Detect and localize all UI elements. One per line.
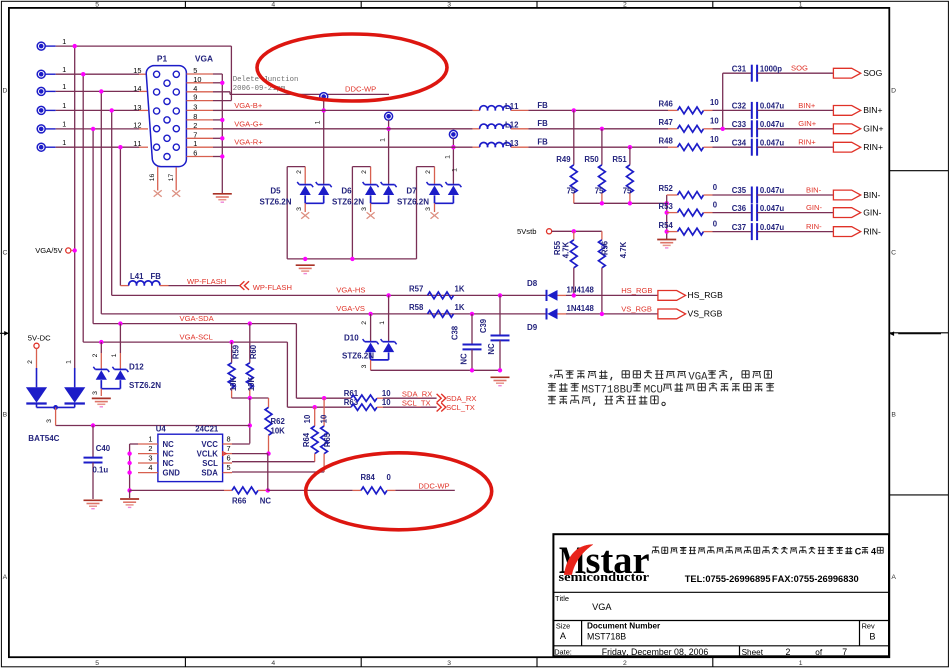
svg-text:R65: R65	[323, 432, 332, 447]
svg-text:D10: D10	[344, 333, 359, 342]
svg-text:SCL: SCL	[202, 459, 218, 468]
svg-text:0.047u: 0.047u	[760, 138, 785, 147]
svg-text:A: A	[560, 631, 567, 641]
svg-text:VGA: VGA	[195, 54, 213, 64]
svg-text:RIN+: RIN+	[863, 142, 883, 152]
svg-text:5V-DC: 5V-DC	[28, 334, 51, 343]
svg-text:3: 3	[425, 207, 432, 211]
svg-text:STZ6.2N: STZ6.2N	[342, 352, 374, 361]
svg-text:RIN+: RIN+	[798, 138, 816, 147]
svg-text:WP-FLASH: WP-FLASH	[187, 277, 226, 286]
svg-text:R64: R64	[302, 432, 311, 447]
svg-text:MST718BU: MST718BU	[582, 384, 633, 396]
svg-text:D6: D6	[341, 187, 352, 196]
svg-text:0.047u: 0.047u	[760, 223, 785, 232]
svg-text:BAT54C: BAT54C	[28, 434, 59, 443]
svg-text:0: 0	[713, 219, 718, 228]
svg-text:75: 75	[595, 187, 604, 196]
svg-text:D8: D8	[527, 279, 538, 288]
svg-text:1: 1	[799, 660, 803, 667]
svg-text:75: 75	[623, 187, 632, 196]
svg-text:Friday, December 08, 2006: Friday, December 08, 2006	[602, 647, 709, 657]
svg-text:C36: C36	[732, 204, 747, 213]
svg-text:2: 2	[623, 660, 627, 667]
svg-text:A: A	[891, 574, 896, 581]
svg-text:1N4148: 1N4148	[567, 285, 595, 294]
svg-text:1N4148: 1N4148	[567, 304, 595, 313]
svg-text:of: of	[815, 648, 823, 657]
svg-text:C: C	[855, 547, 862, 557]
svg-text:C32: C32	[732, 102, 747, 111]
svg-text:2: 2	[425, 170, 432, 174]
svg-text:7: 7	[842, 647, 847, 657]
svg-text:11: 11	[133, 139, 141, 148]
svg-text:D7: D7	[406, 187, 417, 196]
svg-text:R48: R48	[659, 136, 674, 145]
svg-text:B: B	[869, 631, 875, 641]
svg-text:GIN+: GIN+	[863, 124, 883, 134]
svg-text:STZ6.2N: STZ6.2N	[332, 197, 364, 206]
svg-text:B: B	[891, 412, 896, 419]
svg-text:75: 75	[567, 187, 576, 196]
svg-text:Date:: Date:	[554, 647, 572, 656]
svg-text:R54: R54	[659, 221, 674, 230]
svg-text:NC: NC	[260, 496, 272, 505]
svg-text:Size: Size	[556, 622, 570, 631]
svg-text:VS_RGB: VS_RGB	[688, 309, 723, 319]
svg-text:R47: R47	[659, 118, 673, 127]
svg-text:1: 1	[62, 138, 66, 147]
svg-text:SCL_TX: SCL_TX	[446, 403, 475, 412]
svg-text:24C21: 24C21	[195, 425, 219, 434]
svg-text:R46: R46	[659, 100, 674, 109]
svg-text:1: 1	[65, 360, 72, 364]
svg-text:5: 5	[227, 463, 231, 472]
svg-text:FB: FB	[537, 119, 548, 128]
svg-text:3: 3	[92, 391, 99, 395]
svg-text:R57: R57	[409, 285, 423, 294]
svg-text:5: 5	[95, 2, 99, 9]
svg-text:1: 1	[315, 120, 322, 124]
svg-text:3: 3	[46, 419, 53, 423]
svg-text:DDC-WP: DDC-WP	[345, 85, 376, 94]
svg-text:10: 10	[382, 398, 391, 407]
svg-text:L13: L13	[505, 139, 519, 148]
svg-text:1: 1	[111, 353, 118, 357]
svg-text:1: 1	[444, 155, 451, 159]
svg-text:4: 4	[871, 547, 876, 557]
svg-text:R50: R50	[584, 155, 599, 164]
svg-text:1K: 1K	[455, 303, 465, 312]
svg-text:R66: R66	[232, 496, 247, 505]
svg-text:D: D	[2, 88, 7, 95]
svg-text:1: 1	[380, 138, 387, 142]
svg-text:U4: U4	[156, 425, 167, 434]
svg-text:B: B	[3, 412, 8, 419]
svg-text:Document Number: Document Number	[587, 622, 661, 631]
svg-text:R52: R52	[659, 184, 674, 193]
svg-text:2: 2	[27, 360, 34, 364]
svg-text:NC: NC	[163, 450, 175, 459]
svg-text:C34: C34	[732, 138, 747, 147]
svg-text:4.7K: 4.7K	[562, 241, 571, 258]
svg-text:Sheet: Sheet	[742, 648, 764, 657]
svg-text:R59: R59	[232, 344, 241, 359]
svg-text:10K: 10K	[271, 427, 286, 436]
svg-text:STZ6.2N: STZ6.2N	[397, 197, 429, 206]
svg-text:1: 1	[799, 2, 803, 9]
svg-text:D: D	[891, 88, 896, 95]
svg-text:C: C	[891, 250, 896, 257]
svg-text:HS_RGB: HS_RGB	[621, 286, 652, 295]
svg-text:C33: C33	[732, 120, 747, 129]
svg-text:BIN-: BIN-	[806, 185, 822, 194]
svg-text:GIN-: GIN-	[863, 207, 881, 217]
svg-text:0: 0	[713, 200, 718, 209]
svg-text:7: 7	[227, 444, 231, 453]
svg-text:R84: R84	[361, 473, 376, 482]
svg-text:1: 1	[62, 37, 66, 46]
svg-text:10: 10	[303, 414, 312, 423]
svg-text:R49: R49	[556, 155, 571, 164]
svg-text:1K: 1K	[455, 285, 465, 294]
svg-text:BIN-: BIN-	[863, 190, 880, 200]
svg-text:10: 10	[710, 135, 719, 144]
svg-text:FB: FB	[151, 272, 162, 281]
svg-text:R58: R58	[409, 303, 424, 312]
svg-text:SOG: SOG	[863, 68, 882, 78]
svg-text:2: 2	[361, 170, 368, 174]
svg-text:1: 1	[148, 435, 152, 444]
svg-text:MST718B: MST718B	[587, 631, 626, 641]
svg-text:1: 1	[62, 101, 66, 110]
svg-text:0.047u: 0.047u	[760, 186, 785, 195]
svg-text:STZ6.2N: STZ6.2N	[259, 197, 291, 206]
svg-text:MCU: MCU	[644, 384, 663, 396]
svg-text:17: 17	[168, 174, 175, 182]
svg-text:1: 1	[62, 65, 66, 74]
svg-text:VGA-G+: VGA-G+	[234, 119, 263, 128]
svg-text:SDA: SDA	[201, 469, 218, 478]
svg-text:10: 10	[710, 117, 719, 126]
svg-text:10: 10	[710, 98, 719, 107]
svg-text:3: 3	[361, 364, 368, 368]
svg-text:TEL:0755-26996895: TEL:0755-26996895	[685, 574, 771, 584]
svg-text:0: 0	[387, 473, 392, 482]
svg-text:0.1u: 0.1u	[93, 466, 109, 475]
svg-text:4.7K: 4.7K	[619, 241, 628, 258]
svg-text:VGA-B+: VGA-B+	[234, 101, 263, 110]
svg-text:VGA-SDA: VGA-SDA	[180, 314, 215, 323]
svg-text:VGA-SCL: VGA-SCL	[180, 333, 213, 342]
svg-text:1000p: 1000p	[760, 64, 782, 73]
svg-text:SOG: SOG	[791, 64, 808, 73]
svg-text:VCC: VCC	[201, 440, 218, 449]
svg-text:2: 2	[361, 321, 368, 325]
svg-text:3: 3	[447, 660, 451, 667]
svg-text:VGA: VGA	[592, 602, 612, 612]
svg-text:NC: NC	[459, 353, 468, 365]
svg-text:VGA-VS: VGA-VS	[336, 304, 365, 313]
svg-text:3: 3	[361, 207, 368, 211]
svg-text:0: 0	[713, 183, 718, 192]
svg-text:1: 1	[452, 168, 459, 172]
svg-text:RIN-: RIN-	[806, 222, 822, 231]
svg-text:0.047u: 0.047u	[760, 102, 785, 111]
svg-text:SCL_TX: SCL_TX	[402, 398, 431, 407]
svg-text:12: 12	[133, 121, 141, 130]
svg-text:GIN-: GIN-	[806, 203, 823, 212]
svg-text:14: 14	[133, 84, 141, 93]
svg-text:0.047u: 0.047u	[760, 204, 785, 213]
svg-text:FB: FB	[537, 138, 548, 147]
svg-text:3: 3	[296, 207, 303, 211]
svg-text:RIN-: RIN-	[863, 226, 881, 236]
svg-text:GND: GND	[163, 469, 181, 478]
svg-text:Title: Title	[555, 594, 569, 603]
svg-text:15: 15	[133, 66, 141, 75]
svg-text:R62: R62	[271, 417, 286, 426]
svg-text:2: 2	[785, 647, 790, 657]
svg-text:D5: D5	[270, 187, 281, 196]
svg-text:13: 13	[133, 103, 141, 112]
svg-text:HS_RGB: HS_RGB	[688, 290, 724, 300]
svg-text:C: C	[2, 250, 7, 257]
svg-text:STZ6.2N: STZ6.2N	[129, 381, 161, 390]
svg-text:NC: NC	[163, 459, 175, 468]
svg-text:4: 4	[271, 660, 275, 667]
svg-text:BIN+: BIN+	[798, 101, 816, 110]
svg-text:SDA_RX: SDA_RX	[446, 394, 476, 403]
svg-text:Rev: Rev	[862, 622, 875, 631]
svg-text:VS_RGB: VS_RGB	[621, 305, 652, 314]
svg-text:10K: 10K	[247, 376, 256, 391]
svg-text:R51: R51	[612, 155, 627, 164]
svg-text:FAX:0755-26996830: FAX:0755-26996830	[772, 574, 859, 584]
svg-text:R60: R60	[249, 344, 258, 359]
svg-text:R53: R53	[659, 202, 674, 211]
svg-text:2: 2	[296, 170, 303, 174]
svg-text:BIN+: BIN+	[863, 105, 882, 115]
svg-text:10: 10	[382, 389, 391, 398]
svg-text:2: 2	[148, 444, 152, 453]
svg-text:WP-FLASH: WP-FLASH	[253, 283, 292, 292]
svg-text:4: 4	[148, 463, 152, 472]
svg-text:5Vstb: 5Vstb	[517, 227, 536, 236]
svg-text:A: A	[3, 574, 8, 581]
svg-text:VGA: VGA	[688, 372, 708, 384]
svg-text:FB: FB	[537, 101, 548, 110]
svg-text:L12: L12	[505, 121, 519, 130]
svg-text:10: 10	[320, 414, 329, 423]
svg-text:6: 6	[227, 454, 231, 463]
svg-text:10K: 10K	[229, 376, 238, 391]
svg-text:D9: D9	[527, 323, 538, 332]
svg-text:VGA-HS: VGA-HS	[336, 286, 365, 295]
svg-text:DDC-WP: DDC-WP	[418, 481, 449, 490]
svg-text:P1: P1	[157, 54, 168, 64]
svg-text:5: 5	[95, 660, 99, 667]
svg-text:2: 2	[623, 2, 627, 9]
svg-text:C37: C37	[732, 223, 746, 232]
svg-text:C31: C31	[732, 64, 747, 73]
svg-text:GIN+: GIN+	[798, 119, 817, 128]
svg-text:SDA_RX: SDA_RX	[402, 389, 432, 398]
svg-text:VCLK: VCLK	[197, 450, 219, 459]
svg-text:C39: C39	[479, 318, 488, 333]
svg-text:R56: R56	[601, 240, 610, 255]
svg-text:VGA/5V: VGA/5V	[35, 246, 63, 255]
svg-text:D12: D12	[129, 363, 144, 372]
svg-text:16: 16	[149, 174, 156, 182]
svg-text:4: 4	[271, 2, 275, 9]
svg-text:L41: L41	[130, 272, 144, 281]
svg-text:8: 8	[227, 435, 231, 444]
svg-text:0.047u: 0.047u	[760, 120, 785, 129]
svg-text:C38: C38	[450, 325, 459, 340]
svg-text:1: 1	[379, 321, 386, 325]
svg-text:NC: NC	[487, 343, 496, 355]
svg-text:L11: L11	[505, 102, 519, 111]
svg-text:3: 3	[447, 2, 451, 9]
svg-text:C35: C35	[732, 186, 747, 195]
svg-text:2: 2	[92, 353, 99, 357]
svg-text:1: 1	[62, 82, 66, 91]
svg-text:VGA-R+: VGA-R+	[234, 138, 263, 147]
svg-text:1: 1	[62, 120, 66, 129]
svg-text:C40: C40	[96, 444, 111, 453]
svg-text:NC: NC	[163, 440, 175, 449]
svg-text:3: 3	[148, 454, 152, 463]
